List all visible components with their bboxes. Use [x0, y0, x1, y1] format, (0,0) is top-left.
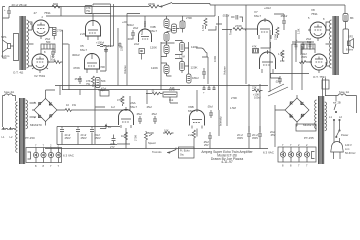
- svg-text:100K: 100K: [213, 56, 217, 62]
- svg-text:50-60 Hz: 50-60 Hz: [345, 151, 356, 155]
- svg-text:+20uf: +20uf: [102, 44, 109, 48]
- capacitor .052uf: [74, 76, 82, 84]
- switch S1 top: [159, 3, 175, 7]
- wire cord leads: [334, 124, 340, 144]
- tube V6A: [119, 107, 134, 128]
- capacitor 20uf 450V c: [90, 130, 101, 141]
- capacitor .02uf right: [275, 76, 282, 84]
- wire PT2 feed verticals: [323, 78, 326, 96]
- svg-text:Echo: Echo: [169, 88, 175, 92]
- label 40uf 450V: [300, 52, 307, 59]
- wire PI links: [175, 41, 208, 75]
- svg-text:1M: 1M: [121, 134, 125, 138]
- switch tremolo: [167, 148, 176, 154]
- svg-text:6SL7: 6SL7: [130, 105, 137, 109]
- resistor 270K on bus: [148, 2, 159, 8]
- heater box right: [278, 147, 316, 162]
- svg-text:270K: 270K: [231, 96, 237, 100]
- tube V5B 6SL7: [85, 54, 100, 73]
- svg-text:47K: 47K: [252, 45, 257, 49]
- capacitor .052uf right: [280, 14, 287, 26]
- capacitor PI: [202, 68, 206, 79]
- capacitor 20uf 450V f: [252, 126, 262, 149]
- wire second bus: [46, 5, 215, 16]
- svg-text:B+: B+: [108, 125, 112, 129]
- speaker SP1: [1, 35, 14, 58]
- svg-text:560: 560: [46, 40, 51, 44]
- tube V3B: [139, 16, 152, 42]
- svg-text:1.5M: 1.5M: [230, 106, 236, 110]
- tube V1 7591 upper: [30, 15, 53, 39]
- wire B+ distribution: [46, 86, 269, 111]
- svg-text:O.T. 4Ω: O.T. 4Ω: [13, 71, 24, 75]
- lamp heater r2: [288, 143, 293, 168]
- svg-text:470K: 470K: [99, 65, 105, 69]
- svg-text:22K: 22K: [252, 86, 257, 90]
- resistor 560 right lower: [300, 61, 312, 64]
- title block: [201, 150, 253, 164]
- svg-text:220K: 220K: [274, 34, 278, 40]
- svg-text:270K: 270K: [148, 2, 155, 6]
- capacitor .05uf a: [136, 112, 142, 124]
- tube V9 7591 lower: [309, 54, 327, 73]
- power transformer PT1 core: [20, 98, 25, 164]
- svg-text:.0033: .0033: [127, 37, 134, 41]
- label V6B 6SL7: [188, 105, 195, 113]
- wire long verticals mid: [100, 14, 140, 86]
- wire right screen bus: [292, 30, 302, 90]
- capacitor 50uf cathode: [50, 48, 55, 62]
- resistor ladder box1: [164, 19, 169, 28]
- wire OT2 taps: [326, 22, 330, 66]
- lamp heater 3: [48, 144, 53, 169]
- wire OT1 taps: [29, 22, 34, 66]
- svg-text:SP1: SP1: [1, 35, 7, 39]
- svg-text:Speed: Speed: [148, 141, 156, 145]
- resistor 10K vertical echo: [117, 96, 124, 106]
- svg-text:O.T. 7591: O.T. 7591: [313, 75, 326, 79]
- svg-text:270K: 270K: [134, 135, 138, 141]
- svg-text:560: 560: [307, 40, 312, 44]
- label 25uf 560: [45, 37, 51, 44]
- resistor 560K box mid: [180, 16, 192, 33]
- tube V7A: [258, 18, 273, 39]
- capacitor 40uf 450V b: [76, 130, 87, 141]
- svg-text:450V: 450V: [95, 136, 101, 140]
- svg-text:120 V: 120 V: [345, 143, 352, 147]
- svg-text:450V: 450V: [81, 136, 87, 140]
- svg-text:20 uf 25vdc: 20 uf 25vdc: [12, 3, 28, 7]
- resistor 47K 7W: [86, 76, 95, 87]
- heater box left: [26, 148, 62, 163]
- resistor 47K hatched mid-right: [252, 45, 259, 54]
- svg-text:600: 600: [53, 2, 58, 6]
- svg-text:.05uf: .05uf: [136, 112, 142, 116]
- label 20 800uf: [122, 20, 134, 27]
- power transformer PT1 primary winding: [16, 102, 18, 152]
- echo unit box: [163, 88, 177, 103]
- svg-text:4-11-97: 4-11-97: [221, 160, 233, 164]
- capacitor filter taps mid: [203, 86, 216, 95]
- resistor box PI col1 row1: [164, 45, 169, 54]
- wire heater stub: [28, 152, 31, 159]
- svg-text:50uf: 50uf: [50, 58, 55, 62]
- svg-text:7591: 7591: [44, 11, 51, 15]
- label +10K 100uf: [253, 93, 261, 100]
- svg-text:V2 7591: V2 7591: [34, 74, 46, 78]
- thermistor box: [100, 87, 109, 97]
- tube V5A 6SL7: [86, 21, 101, 40]
- tube V6B: [190, 90, 205, 129]
- wire bridge AC taps: [30, 90, 46, 126]
- label V6A 6SL7: [130, 101, 137, 109]
- svg-text:1.2M: 1.2M: [179, 55, 185, 59]
- svg-text:Volume: Volume: [223, 66, 227, 75]
- wire secondary box: [14, 34, 19, 61]
- power transformer PT2 secondary winding: [315, 100, 317, 129]
- inductor L1: [2, 127, 9, 139]
- wire tremolo verticals: [219, 84, 260, 126]
- resistor box cathode h: [41, 44, 55, 54]
- svg-text:470K: 470K: [73, 66, 80, 70]
- capacitor .05uf V6B: [207, 105, 213, 119]
- capacitor 20uf 450V e: [237, 126, 251, 149]
- svg-text:fuse 1A: fuse 1A: [339, 90, 349, 94]
- jack box mid: [139, 49, 145, 60]
- svg-text:300uf: 300uf: [72, 53, 80, 57]
- svg-text:270K: 270K: [235, 24, 242, 28]
- capacitor .28uf 25V: [203, 132, 212, 149]
- fuse F2 1A: [325, 90, 357, 96]
- label V5 6SL7: [80, 44, 87, 52]
- wire bridge2 taps: [275, 95, 297, 147]
- lamp heater 2: [41, 144, 46, 169]
- svg-text:PT-150: PT-150: [25, 136, 35, 140]
- output transformer OT2 winding: [330, 20, 332, 68]
- svg-text:20uf: 20uf: [133, 26, 138, 30]
- label L1 L2: [329, 115, 342, 124]
- svg-text:180uf: 180uf: [192, 76, 199, 80]
- svg-text:Volume: Volume: [123, 65, 127, 74]
- resistor 1M vertical: [121, 132, 128, 149]
- resistor 600 on bus: [52, 2, 61, 16]
- output transformer OT2 core: [333, 16, 338, 75]
- resistor 270K screen V1: [53, 28, 64, 40]
- output transformer OT1 core: [20, 16, 25, 70]
- resistor ladder box2: [172, 24, 177, 33]
- tube V7B: [260, 50, 276, 73]
- svg-text:120K: 120K: [191, 45, 198, 49]
- svg-text:Out: Out: [169, 98, 173, 102]
- bridge rectifier MDA970 right: [285, 98, 315, 127]
- svg-text:450V: 450V: [237, 136, 243, 140]
- plug AC: [331, 142, 357, 160]
- capacitor filter row: [292, 39, 314, 50]
- wire ground bus bottom: [45, 143, 268, 149]
- capacitor +20uf left mid: [102, 44, 109, 53]
- svg-text:7591: 7591: [311, 12, 318, 16]
- svg-text:.05V: .05V: [270, 133, 276, 137]
- svg-text:sw. 2B: sw. 2B: [333, 101, 341, 105]
- capacitor 22uf volume: [118, 43, 124, 52]
- svg-text:1W: 1W: [72, 103, 76, 107]
- svg-text:450V: 450V: [252, 136, 258, 140]
- resistor .01 h: [146, 90, 178, 104]
- capacitor 20uf 27V d: [110, 135, 116, 150]
- wire PI verticals: [185, 48, 208, 84]
- lamp heater 1: [33, 144, 38, 169]
- wire top bus right: [175, 4, 345, 14]
- svg-text:A.C.: A.C.: [345, 147, 350, 151]
- svg-text:120K: 120K: [151, 66, 158, 70]
- svg-text:.052uf: .052uf: [222, 14, 229, 18]
- wire bottom mid links: [95, 107, 260, 144]
- resistor 1.5K: [278, 50, 285, 63]
- capacitor .05uf b: [151, 112, 157, 124]
- wire left column down: [3, 52, 7, 58]
- svg-text:8 ohm: 8 ohm: [346, 48, 353, 52]
- wire PI col1 links: [161, 42, 172, 90]
- wire screen bus left: [63, 30, 70, 90]
- svg-text:Sw.: Sw.: [180, 153, 184, 157]
- wire mains left: [3, 96, 16, 128]
- lamp heater r4: [304, 143, 309, 168]
- svg-text:.05uf: .05uf: [151, 112, 157, 116]
- label .05uf right bottom: [270, 130, 276, 137]
- svg-text:fuse 2A: fuse 2A: [4, 90, 14, 94]
- svg-text:6SL7: 6SL7: [80, 48, 87, 52]
- svg-text:8K: 8K: [350, 16, 354, 20]
- svg-text:6SL7: 6SL7: [254, 14, 261, 18]
- capacitor C bias 20uf: [3, 7, 12, 19]
- resistor box PI col1 row2: [164, 65, 169, 74]
- wire echo bus: [95, 84, 130, 144]
- wire caps feed: [57, 127, 120, 145]
- svg-text:500K: 500K: [148, 131, 154, 135]
- label 25uf 560 right: [306, 37, 312, 44]
- svg-text:.05uf: .05uf: [146, 105, 152, 109]
- output transformer OT1 winding: [27, 20, 29, 68]
- wire V5 plate risers: [89, 4, 114, 46]
- svg-text:4700: 4700: [117, 98, 123, 102]
- switch standby: [333, 101, 341, 114]
- svg-text:Ft. Echo: Ft. Echo: [180, 149, 190, 153]
- svg-text:2.2K: 2.2K: [80, 32, 86, 36]
- svg-text:6.3 VAC: 6.3 VAC: [63, 154, 75, 158]
- tube V2 7591 lower: [32, 50, 50, 73]
- bridge rectifier MDA970 left: [30, 99, 57, 128]
- svg-text:120K: 120K: [150, 46, 157, 50]
- resistor box PI 2: [180, 62, 185, 71]
- footswitch box: [179, 147, 195, 158]
- svg-text:270K: 270K: [186, 16, 192, 20]
- svg-text:.05uf: .05uf: [207, 105, 213, 109]
- resistor 22K: [252, 86, 263, 93]
- svg-text:+20uf: +20uf: [264, 6, 271, 10]
- capacitor 40uf 450V a: [60, 130, 71, 141]
- box SP2: [343, 29, 349, 54]
- resistor 10K bottom: [163, 129, 174, 135]
- power transformer PT1 secondary winding: [26, 100, 28, 129]
- svg-text:MDA970: MDA970: [303, 123, 315, 127]
- capacitor .052uf mid: [222, 14, 243, 23]
- wire top-left B+ bus: [3, 7, 150, 41]
- resistor 10 1W: [57, 103, 78, 112]
- resistor 2.2K bottom: [188, 130, 196, 149]
- svg-text:PT-155: PT-155: [304, 136, 314, 140]
- capacitor 100uf V5: [96, 41, 106, 47]
- resistor 1.5M vertical: [201, 18, 207, 31]
- svg-text:.02uf: .02uf: [275, 80, 281, 84]
- wire ladder links: [167, 16, 180, 43]
- svg-text:150: 150: [280, 59, 285, 63]
- svg-text:1.5K: 1.5K: [297, 28, 301, 34]
- box upper PT2: [322, 80, 329, 89]
- svg-text:7W: 7W: [86, 9, 90, 13]
- wire mains right: [336, 96, 357, 114]
- svg-text:1uf: 1uf: [111, 105, 115, 109]
- svg-text:120K: 120K: [191, 66, 198, 70]
- speaker SP2: [346, 35, 354, 52]
- svg-text:47uf: 47uf: [101, 87, 106, 91]
- resistor box cathode h right: [301, 44, 315, 54]
- wire long vertical volume: [219, 14, 228, 110]
- svg-text:22uf: 22uf: [134, 42, 139, 46]
- capacitor tone .0033: [127, 30, 135, 41]
- svg-text:Tremolo: Tremolo: [152, 150, 162, 154]
- potentiometer Speed 500K: [145, 131, 157, 145]
- svg-text:100uf: 100uf: [254, 96, 261, 100]
- label V8 7591: [311, 8, 318, 16]
- wire V7 couplings: [245, 5, 284, 84]
- resistor box PI 1: [180, 43, 185, 52]
- arrow B+: [100, 125, 112, 130]
- lamp heater r1: [280, 143, 285, 168]
- wire diagonals to PT2: [268, 84, 288, 96]
- resistor ladder box3: [164, 33, 169, 42]
- svg-text:56K: 56K: [101, 79, 106, 83]
- label V3B 6SL7: [150, 25, 157, 33]
- wire right couplings: [270, 30, 309, 84]
- inductor L2: [9, 127, 15, 139]
- terminal box PT2: [296, 124, 316, 131]
- switch Power: [336, 130, 349, 138]
- lamp heater r3: [296, 143, 301, 168]
- resistor 270K h: [233, 24, 258, 31]
- resistor box 47K plate: [85, 6, 92, 14]
- svg-text:MDA970: MDA970: [30, 123, 42, 127]
- svg-text:10K: 10K: [164, 129, 169, 133]
- resistor 560 cathode lower: [49, 61, 63, 64]
- svg-text:1.5K: 1.5K: [278, 52, 284, 56]
- wire mid coupling: [208, 24, 232, 30]
- svg-text:2.2K: 2.2K: [188, 133, 194, 137]
- svg-text:Power: Power: [341, 133, 348, 137]
- resistor 8K box: [343, 14, 354, 22]
- resistor 220K vertical: [274, 27, 280, 40]
- wire 8K to speaker: [346, 22, 349, 44]
- label V7 6SL7: [254, 10, 261, 18]
- power transformer PT2 core: [319, 96, 324, 164]
- svg-text:+100uf: +100uf: [96, 41, 104, 45]
- svg-text:450V: 450V: [65, 136, 71, 140]
- tube V8 7591 upper: [308, 16, 326, 41]
- svg-text:.052uf: .052uf: [74, 77, 81, 81]
- wire heater stub right: [312, 152, 315, 159]
- resistor box PI 3: [187, 74, 199, 83]
- resistor 56K box: [96, 78, 106, 88]
- svg-text:47: 47: [34, 11, 38, 15]
- svg-text:22uf: 22uf: [120, 46, 124, 51]
- lamp heater 4: [56, 144, 61, 169]
- fuse F1 2A: [3, 90, 16, 96]
- power transformer PT2 primary winding: [325, 102, 327, 131]
- svg-text:1.5M: 1.5M: [201, 25, 205, 31]
- svg-text:6.3 VAC: 6.3 VAC: [263, 151, 275, 155]
- svg-text:25V: 25V: [204, 143, 209, 147]
